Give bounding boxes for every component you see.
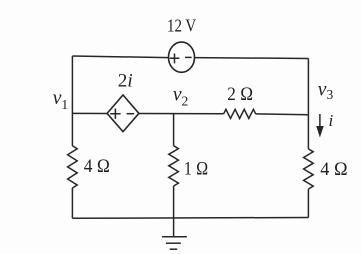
wire middle row: v1 node to diamond [72, 112, 107, 114]
wire top-right segment (voltage source to v3 corner) [195, 57, 309, 60]
wire right side upper (v3 corner down to resistor) [307, 59, 309, 149]
wire middle row: 2 ohm resistor to v3 node [256, 113, 309, 116]
ground [162, 218, 187, 249]
svg-text:12 V: 12 V [167, 16, 197, 36]
svg-text:4 Ω: 4 Ω [84, 156, 110, 177]
wire left side lower (resistor to bottom corner) [71, 188, 73, 218]
wire left side upper (v1 corner down to resistor) [71, 56, 73, 146]
voltage source 12 V (circle with + -) [169, 42, 195, 72]
svg-text:4 Ω: 4 Ω [320, 159, 348, 180]
svg-text:2i: 2i [118, 71, 133, 92]
wire right side lower (resistor to bottom corner) [307, 189, 309, 218]
resistor 1 ohm [169, 146, 179, 186]
svg-text:i: i [329, 111, 334, 130]
wire middle branch lower (1 ohm to bottom wire) [173, 186, 175, 218]
wire middle branch upper (v2 node down to 1 ohm) [173, 114, 175, 146]
current arrow i [316, 114, 324, 138]
resistor 4 ohm right [304, 149, 314, 189]
wire top-left segment (v1 corner to voltage source) [72, 56, 168, 58]
wire middle row: diamond to 2 ohm resistor (through node v2) [139, 113, 224, 115]
dependent source 2i (diamond with + -) [107, 95, 139, 132]
resistor 2 ohm [224, 109, 256, 118]
resistor 4 ohm left [68, 146, 78, 188]
svg-text:2 Ω: 2 Ω [227, 84, 253, 105]
wire bottom side [72, 217, 308, 220]
svg-text:1 Ω: 1 Ω [184, 159, 208, 180]
